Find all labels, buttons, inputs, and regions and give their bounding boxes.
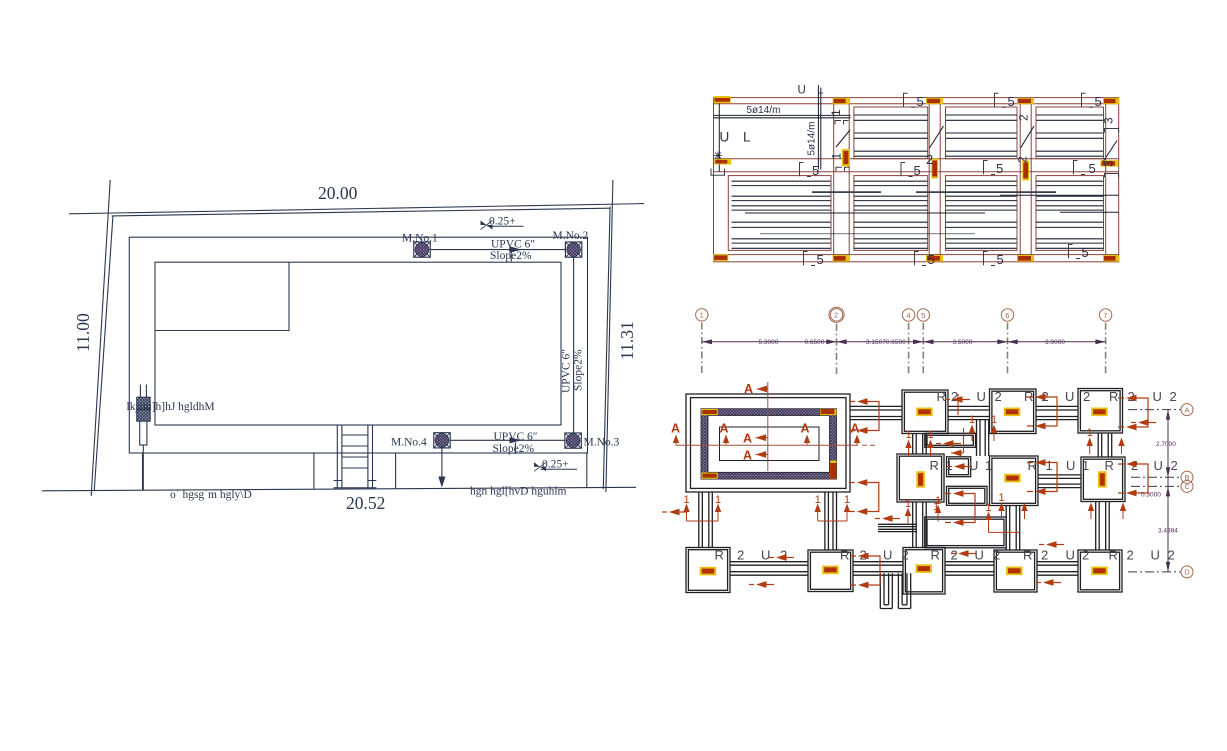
A-A up arrowheads: [673, 435, 679, 444]
svg-text:1: 1: [815, 494, 821, 506]
top band bay2 bars: [854, 115, 928, 156]
beam D1-D2: [730, 562, 808, 576]
grid circle 1: [696, 309, 708, 321]
svg-text:Slope2%: Slope2%: [490, 250, 532, 262]
water meter narrow pipe: [140, 421, 147, 445]
footing D4: [903, 548, 945, 595]
svg-text:1: 1: [986, 502, 992, 514]
boundary top construction line: [69, 204, 644, 214]
svg-text:2: 2: [1170, 389, 1177, 404]
svg-text:1: 1: [985, 458, 992, 473]
sewer outfall line M4 down: [441, 448, 443, 484]
porch left verticals: [143, 453, 314, 490]
svg-text:D: D: [1184, 568, 1190, 577]
svg-text:3: 3: [1102, 117, 1116, 124]
benchmark symbol top: [481, 221, 493, 230]
svg-text:5: 5: [921, 311, 925, 320]
svg-text:1: 1: [715, 494, 721, 506]
diagonal slash grid6: [1021, 126, 1035, 148]
svg-text:1: 1: [829, 109, 843, 116]
slab outer frame: [714, 98, 1119, 262]
footing A4: [902, 390, 948, 434]
svg-text:0.25+: 0.25+: [489, 216, 516, 228]
svg-text:3.9000: 3.9000: [1045, 339, 1065, 346]
tail stub 1: [880, 573, 892, 608]
beam B6-D6 vertical: [1006, 506, 1020, 551]
rebar lines bottom band: [732, 181, 1119, 248]
svg-text:5: 5: [928, 252, 935, 267]
boundary top line: [112, 208, 610, 216]
svg-text:5ø14/m: 5ø14/m: [807, 122, 818, 156]
beam D6-D7: [1037, 562, 1078, 576]
footing A6: [990, 389, 1037, 434]
svg-text:1: 1: [991, 414, 997, 426]
svg-text:0.3000: 0.3000: [1141, 492, 1161, 499]
svg-text:U: U: [969, 458, 978, 473]
svg-text:2: 2: [737, 548, 744, 563]
benchmark symbol bottom: [534, 462, 546, 471]
footing column markers: [700, 408, 1108, 576]
svg-text:U L: U L: [798, 85, 828, 97]
svg-text:2: 2: [1127, 548, 1134, 563]
beam D2-D4: [853, 562, 903, 576]
long distribution bar 1: [812, 191, 1056, 193]
svg-text:UPVC 6″: UPVC 6″: [561, 349, 573, 393]
sewer pipe M4-M3: [450, 439, 565, 441]
svg-text:2: 2: [902, 548, 909, 563]
svg-text:U: U: [1066, 458, 1075, 473]
svg-text:2: 2: [1083, 389, 1090, 404]
hatch ring top: [701, 409, 837, 416]
svg-text:1: 1: [905, 498, 911, 510]
grid circle 7: [1099, 309, 1111, 321]
svg-text:2: 2: [1017, 114, 1031, 121]
manhole M4: [434, 433, 450, 448]
svg-text:A: A: [1185, 405, 1190, 414]
svg-text:A: A: [720, 422, 729, 436]
svg-text:4: 4: [906, 311, 910, 320]
svg-text:M.No.3: M.No.3: [584, 437, 620, 449]
footing D6: [994, 550, 1037, 592]
dim arrowheads right: [1166, 410, 1170, 572]
hook A7 right: [1118, 395, 1148, 431]
svg-text:20.52: 20.52: [346, 493, 385, 513]
svg-text:R: R: [937, 389, 946, 404]
beam A4-A6: [948, 406, 990, 419]
footing B6: [990, 456, 1039, 506]
svg-text:2: 2: [1171, 458, 1178, 473]
underline 0.25+ bottom: [541, 468, 578, 470]
hatch ring right: [830, 409, 837, 479]
svg-text:2: 2: [995, 389, 1002, 404]
boundary bottom line: [42, 487, 636, 491]
vertical beam grid6: [1020, 98, 1031, 262]
footing D1: [686, 548, 730, 593]
hook A4-A6 beam: [1027, 394, 1057, 430]
row D dashed arrow left: [951, 550, 976, 557]
datum line D: [1128, 571, 1181, 573]
bottom band bay3 bars: [946, 181, 1017, 248]
svg-text:A: A: [743, 449, 752, 463]
pipe flow arrow bottom: [510, 437, 522, 443]
grid circle 5: [917, 309, 929, 321]
hook pad2 arrow: [947, 463, 972, 470]
svg-text:Slope2%: Slope2%: [493, 443, 535, 455]
grid dash-dot stems: [702, 323, 1106, 375]
raft footing inner: [691, 398, 847, 489]
datum circles: [1181, 404, 1193, 578]
underline 0.25+ top: [488, 225, 524, 227]
boundary right line: [603, 207, 610, 490]
slab columns row middle: [714, 149, 1118, 181]
svg-text:6: 6: [1005, 311, 1009, 320]
svg-text:B: B: [1185, 473, 1190, 482]
outfall arrowhead: [438, 477, 445, 488]
svg-text:A: A: [743, 432, 752, 446]
svg-text:5: 5: [1089, 161, 1096, 176]
svg-text:M.No.1: M.No.1: [402, 233, 438, 245]
hook mid lower: [875, 515, 900, 522]
svg-text:2: 2: [926, 152, 933, 167]
datum line B: [1131, 476, 1181, 478]
bottom band bay panel outlines: [728, 176, 831, 251]
svg-text:5: 5: [1008, 94, 1015, 109]
svg-text:U: U: [1153, 389, 1162, 404]
dimension tick arrows: [702, 339, 1106, 344]
footing B4: [897, 454, 944, 502]
svg-text:1: 1: [999, 492, 1005, 504]
tail stub 2: [898, 573, 910, 608]
long distribution bar 2: [745, 195, 1119, 213]
mid rect room: [925, 517, 1006, 548]
svg-text:5: 5: [997, 252, 1004, 267]
svg-text:R: R: [930, 458, 939, 473]
hook B4 left: [849, 479, 879, 515]
hook mid pad3: [945, 490, 975, 526]
svg-text:1: 1: [928, 429, 934, 441]
grid circle 2 bold: [830, 309, 842, 321]
beam raft-D2 vertical: [825, 492, 837, 550]
slab columns row top: [714, 96, 1119, 104]
beam A6-A7: [1036, 406, 1078, 419]
slope tick bottom: [514, 443, 516, 455]
beam B6-B7: [1038, 475, 1081, 488]
small rect pad 2: [947, 457, 971, 477]
svg-text:U: U: [761, 548, 770, 563]
bracket symbols top row: [904, 93, 916, 107]
long distribution bar 3: [760, 233, 975, 235]
grid circles row: [696, 307, 1112, 322]
footings and beams: [686, 389, 1125, 609]
water meter hatched boxes: [137, 397, 151, 409]
svg-text:20.00: 20.00: [318, 183, 358, 203]
sewer pipe M2-M3: [573, 257, 575, 433]
svg-text:C: C: [1185, 482, 1191, 491]
diagonal slash grid45: [930, 126, 944, 148]
bay1 vertical double line: [818, 88, 820, 170]
svg-text:3: 3: [1102, 160, 1116, 167]
svg-text:5.3000: 5.3000: [759, 339, 779, 346]
svg-text:A: A: [801, 422, 810, 436]
stair rails: [337, 425, 372, 488]
small rect pad 1: [925, 433, 976, 447]
hook above D6: [1039, 541, 1064, 548]
svg-text:R: R: [1105, 458, 1114, 473]
svg-text:1: 1: [844, 494, 850, 506]
svg-text:3.4984: 3.4984: [1158, 528, 1178, 535]
svg-text:U L: U L: [720, 130, 756, 145]
svg-text:11.00: 11.00: [73, 313, 93, 352]
red up arrows flanking vertical beams: [909, 433, 1124, 519]
hook D4 row right: [1036, 579, 1061, 586]
svg-text:M.No.4: M.No.4: [391, 437, 427, 449]
vertical dimension line right: [1167, 410, 1169, 572]
hatch ring left: [701, 409, 708, 479]
svg-text:2: 2: [834, 311, 838, 320]
svg-text:2: 2: [951, 548, 958, 563]
svg-text:3.15070.6500: 3.15070.6500: [866, 339, 906, 346]
building outline: [155, 262, 561, 425]
svg-text:2: 2: [1168, 548, 1175, 563]
svg-text:R: R: [840, 548, 849, 563]
hook D2-D4 row: [850, 553, 880, 589]
vertical beam grid2: [834, 98, 850, 262]
beam mid horizontal: [878, 524, 917, 531]
slab bottom inner line: [714, 254, 1119, 256]
stair rungs: [334, 435, 377, 488]
svg-text:1: 1: [969, 414, 975, 426]
svg-text:Slope2%: Slope2%: [573, 349, 585, 391]
svg-text:1: 1: [1082, 458, 1089, 473]
svg-text:R: R: [715, 548, 724, 563]
hook A row far right: [1131, 419, 1156, 426]
bay1 top slab double line: [714, 115, 851, 117]
hatch ring outline: [701, 409, 837, 479]
manhole M3: [565, 433, 581, 448]
svg-text:UPVC 6″: UPVC 6″: [494, 431, 538, 443]
svg-text:5: 5: [1082, 245, 1089, 260]
svg-text:R: R: [931, 548, 940, 563]
svg-text:1: 1: [946, 458, 953, 473]
hook D1-D2 row: [749, 581, 774, 588]
boundary left line: [94, 217, 113, 491]
boundary left construction line: [91, 180, 110, 496]
beam A4-B4 vertical: [913, 434, 927, 455]
bottom band bay4 bars: [1036, 181, 1103, 248]
svg-text:5: 5: [996, 161, 1003, 176]
svg-text:hgn hgl[hvD hguhlm: hgn hgl[hvD hguhlm: [470, 486, 567, 498]
bottom band bay1 bars: [732, 181, 831, 248]
dimension texts: [759, 339, 1066, 346]
svg-text:A: A: [671, 422, 680, 436]
svg-text:1: 1: [933, 501, 939, 513]
hook row D left arrow 1: [769, 554, 794, 561]
setback offset rectangle: [129, 237, 587, 453]
beam B4-D4 vertical: [913, 502, 927, 548]
hook B6 mid: [662, 509, 687, 516]
svg-text:2: 2: [1016, 156, 1030, 163]
water meter drop line: [142, 445, 144, 490]
datum line C: [1131, 485, 1181, 487]
svg-text:5ø14/m: 5ø14/m: [747, 105, 781, 116]
hook A4 right: [945, 396, 970, 403]
slab columns row bottom: [713, 254, 1119, 261]
hook pad1 arrow: [936, 440, 961, 447]
slab top inner line: [714, 103, 1119, 105]
middle beam lines: [714, 159, 1119, 172]
slope tick top: [510, 251, 512, 262]
corner bar BR vertical: [830, 461, 836, 479]
beam A7-B7 vertical: [1098, 433, 1112, 457]
hook B7 right: [1118, 461, 1148, 497]
corner bar TR: [820, 409, 837, 415]
beam A6-B6 vertical: [977, 420, 989, 456]
footing D7: [1078, 550, 1122, 592]
beam B7-D7 vertical: [1096, 502, 1110, 551]
datum line A: [1128, 409, 1181, 411]
footing A7: [1078, 389, 1123, 434]
svg-text:U: U: [975, 548, 984, 563]
raft inner room rect: [720, 427, 820, 461]
svg-text:A: A: [744, 382, 753, 396]
svg-text:M.No.2: M.No.2: [553, 230, 589, 242]
vertical beam grid45: [929, 98, 940, 262]
footing D2: [808, 550, 853, 592]
hook B6-B7: [1027, 459, 1057, 495]
svg-text:U: U: [1151, 548, 1160, 563]
manhole M2: [565, 242, 581, 257]
svg-text:1: 1: [684, 494, 690, 506]
svg-text:R: R: [1023, 548, 1032, 563]
svg-text:U: U: [883, 548, 892, 563]
svg-text:oˈ hgsgˈm hgly\D: oˈ hgsgˈm hgly\D: [170, 489, 252, 501]
svg-text:A: A: [851, 422, 860, 436]
svg-text:0.6500: 0.6500: [805, 339, 825, 346]
beam D4-D6: [945, 562, 994, 576]
right side datum lines and circles: [1128, 410, 1181, 572]
svg-text:3.5000: 3.5000: [953, 339, 973, 346]
red vertical grid5 upper: [957, 394, 959, 415]
svg-text:2: 2: [1041, 548, 1048, 563]
bracket symbols bottom row: [804, 252, 816, 266]
red vertical mid cluster: [951, 428, 964, 453]
star symbol left edge: [714, 152, 722, 160]
raft footing outer: [686, 394, 850, 492]
svg-text:2: 2: [993, 548, 1000, 563]
svg-text:5: 5: [817, 252, 824, 267]
svg-text:0.25+: 0.25+: [542, 459, 569, 471]
svg-text:R: R: [1109, 389, 1118, 404]
svg-text:U: U: [1065, 389, 1074, 404]
svg-text:U: U: [1066, 548, 1075, 563]
svg-text:11.31: 11.31: [617, 321, 637, 360]
bracket left edge: [711, 169, 725, 176]
bottom band bay2 bars: [854, 181, 928, 248]
hook raft-A4 beam: [849, 398, 879, 434]
footing B7: [1081, 457, 1125, 502]
vertical edge bar left navy: [718, 98, 720, 172]
svg-text:2: 2: [951, 389, 958, 404]
top band bay3 bars: [946, 115, 1017, 156]
corner bar TL: [701, 409, 718, 415]
room partition: [155, 262, 289, 330]
A-A horizontal section line: [676, 444, 858, 446]
raft hatch band: [701, 409, 837, 479]
manhole M1: [414, 242, 430, 257]
svg-text:7: 7: [1103, 311, 1107, 320]
svg-text:U: U: [1154, 458, 1163, 473]
beam raft-D1 vertical: [699, 492, 713, 548]
svg-text:2: 2: [1082, 548, 1089, 563]
bracket symbols with 5 labels : middle row: [800, 163, 812, 177]
svg-text:1: 1: [700, 311, 704, 320]
svg-text:1: 1: [906, 429, 912, 441]
svg-text:2.7000: 2.7000: [1156, 441, 1176, 448]
top band bay panel outlines: [854, 107, 928, 159]
svg-text:R: R: [1109, 548, 1118, 563]
boundary right construction line: [606, 180, 613, 492]
svg-text:5: 5: [917, 94, 924, 109]
diagonal slash grid2: [836, 130, 850, 147]
corner bar BL: [701, 473, 718, 479]
small rect pad 3: [947, 486, 988, 505]
svg-text:5: 5: [914, 163, 921, 178]
vertical beam right inner: [1105, 98, 1107, 262]
grid circle 4: [902, 309, 914, 321]
slab text labels: [720, 85, 828, 156]
porch right verticals: [396, 453, 587, 489]
top band bay4 bars: [1036, 115, 1103, 156]
hatch ring bottom: [701, 472, 837, 479]
diagonal slash grid7: [1104, 141, 1118, 162]
red 1-labels with up arrows below raft: [687, 512, 1020, 532]
svg-text:lkjмu]h]hJ hgldhM: lkjмu]h]hJ hgldhM: [127, 401, 215, 413]
bracket right edge lower: [1105, 174, 1119, 178]
brackets rotated at grid2: [835, 121, 849, 125]
bracket right edge upper: [1105, 129, 1119, 133]
right dim texts: [1141, 441, 1178, 535]
svg-text:1: 1: [830, 153, 844, 160]
label rows R 2 U 2: [715, 389, 1178, 563]
svg-text:1: 1: [1046, 458, 1053, 473]
grid dimension line: [702, 341, 1106, 343]
svg-text:R: R: [1028, 458, 1037, 473]
grid circle 6: [1001, 309, 1013, 321]
svg-text:5: 5: [812, 163, 819, 178]
section line A vertical through raft: [676, 382, 878, 471]
sewer pipe M1-M2: [430, 249, 565, 251]
svg-text:U: U: [977, 389, 986, 404]
svg-text:1: 1: [1087, 427, 1093, 439]
beam raft to A4: [850, 406, 902, 419]
rebar lines top band: [714, 88, 1117, 170]
site plan texts: [73, 183, 637, 513]
svg-text:5: 5: [1095, 94, 1102, 109]
svg-text:UPVC 6″: UPVC 6″: [491, 238, 535, 250]
section A cut arrows on vertical line: [756, 386, 769, 458]
pipe flow arrow top: [509, 246, 521, 253]
water meter pipes: [140, 385, 146, 398]
